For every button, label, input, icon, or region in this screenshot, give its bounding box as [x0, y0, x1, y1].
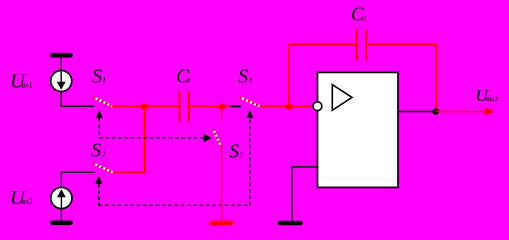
ground (black, noninverting input): [280, 221, 300, 226]
label S2: [91, 140, 106, 162]
ground (red, under S3): [212, 221, 231, 226]
control arrow (phase 2 to S4): [246, 110, 253, 118]
svg-text:вх1: вх1: [22, 81, 33, 90]
wire: [60, 209, 62, 222]
control arrow (phase 2 to S2): [95, 176, 102, 184]
svg-text:2: 2: [363, 15, 367, 23]
svg-text:вых: вых: [486, 94, 499, 103]
switch S2: [93, 163, 113, 172]
label C1: [176, 66, 191, 87]
node n1: [141, 103, 148, 110]
svg-text:3: 3: [238, 151, 243, 159]
label C2: [351, 5, 367, 26]
wire: [398, 111, 436, 113]
svg-text:S: S: [91, 140, 101, 162]
wire: [61, 172, 94, 187]
label S4: [238, 65, 253, 87]
source U_vx2 terminal bar: [53, 221, 71, 226]
wire: [60, 91, 94, 106]
source U_vx1 terminal bar: [53, 53, 71, 58]
wire: [289, 45, 356, 107]
capacitor C2: [357, 29, 367, 61]
switch S1: [93, 97, 112, 106]
current source U_vx2: [51, 187, 72, 208]
wire: [113, 106, 146, 172]
svg-text:S: S: [229, 140, 239, 162]
current source U_vx1: [51, 71, 72, 92]
wire: [190, 105, 230, 107]
wire: [292, 167, 318, 221]
wire: [60, 55, 62, 71]
control arrow (phase 1 to S3): [204, 134, 212, 142]
op-amp triangle: [332, 85, 352, 111]
output node: [432, 108, 439, 115]
output arrow: [485, 107, 495, 115]
svg-text:S: S: [92, 65, 102, 87]
op-amp U1 box: [318, 72, 399, 187]
node n2: [218, 103, 225, 110]
switch S3: [213, 129, 221, 147]
wire: [112, 105, 180, 107]
inverting input bubble: [313, 102, 322, 111]
label U_vx1: [10, 71, 33, 93]
label S3: [229, 140, 243, 162]
wire: [221, 146, 223, 221]
label S1: [92, 65, 106, 87]
svg-text:2: 2: [102, 151, 106, 159]
switch S4: [240, 97, 260, 106]
svg-text:1: 1: [102, 76, 106, 84]
node n3: [286, 103, 293, 110]
control dashed line phase 2: [99, 118, 250, 205]
svg-text:4: 4: [249, 76, 253, 84]
control arrow (phase 1 to S1): [96, 110, 103, 118]
svg-text:1: 1: [187, 76, 191, 84]
wire: [230, 105, 241, 107]
control dashed line phase 1: [99, 118, 204, 138]
capacitor C1: [180, 92, 190, 123]
wire: [260, 105, 313, 107]
label U_vyx: [476, 86, 499, 105]
wire: [221, 106, 223, 120]
wire: [367, 45, 437, 112]
svg-text:S: S: [238, 65, 248, 87]
wire: [436, 111, 486, 113]
label U_vx2: [10, 187, 33, 209]
svg-text:вх2: вх2: [22, 197, 33, 206]
